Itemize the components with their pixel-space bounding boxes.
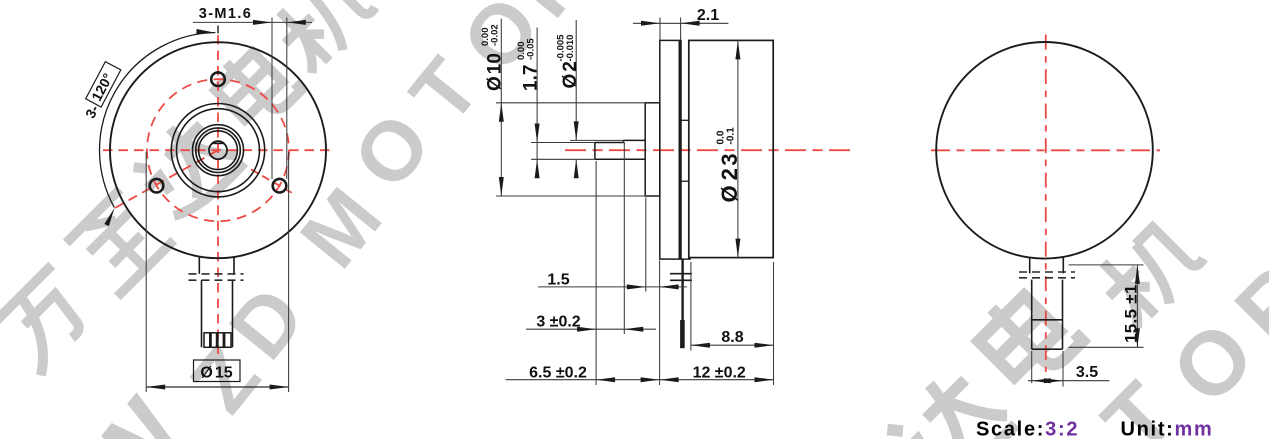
- plate bottom gap line: [681, 258, 691, 260]
- shaft step: [623, 140, 625, 142]
- red centerline vertical: [217, 35, 219, 354]
- svg-text:3.5: 3.5: [1076, 364, 1098, 381]
- ext line 1.7 bottom: [531, 158, 595, 160]
- ext line body back lower: [773, 262, 775, 385]
- shaft end cap: [594, 143, 596, 160]
- hidden dashed line 2: [189, 279, 244, 281]
- motor body rectangle: [689, 40, 773, 257]
- svg-text:15.5 ±1: 15.5 ±1: [1122, 284, 1141, 343]
- arrow 1.7 bottom: [535, 159, 540, 178]
- svg-text:6.5 ±0.2: 6.5 ±0.2: [529, 364, 587, 381]
- arrow 3 left: [577, 327, 596, 332]
- ext line dia2 top: [570, 139, 624, 141]
- bearing circle 1: [193, 125, 244, 176]
- screw tick lower: [681, 180, 689, 182]
- shaft stub left line: [198, 257, 200, 274]
- hidden dashed line 1: [189, 273, 244, 275]
- bearing circle 2: [196, 128, 241, 173]
- red radial centerline to lower-right hole: [251, 169, 294, 194]
- shaft bottom line: [1032, 348, 1063, 350]
- dim line 1.7: [536, 28, 538, 173]
- svg-text:-0.1: -0.1: [725, 127, 736, 145]
- ext line hub bottom: [496, 195, 645, 197]
- arrow 15.5 bottom: [1135, 328, 1140, 347]
- mounting hole top: [211, 72, 225, 86]
- knurl box: [204, 333, 231, 348]
- arrow dia23 top: [735, 40, 740, 59]
- dim line 6.5: [506, 379, 660, 381]
- svg-text:1.7: 1.7: [521, 65, 542, 91]
- red centerline vertical: [1045, 35, 1047, 372]
- hidden dashed line 1: [1019, 271, 1075, 273]
- dim line dia10: [500, 19, 502, 196]
- arrow 3.5 right: [1044, 378, 1063, 383]
- ext line shaft tip: [595, 161, 597, 385]
- shaft left line: [201, 280, 203, 347]
- screw tick upper: [681, 119, 689, 121]
- dia15 label box: [194, 360, 241, 382]
- outer circle body: [110, 42, 326, 258]
- ext line hub face: [645, 198, 647, 292]
- svg-text:-0.02: -0.02: [490, 24, 501, 46]
- arc arrow bottom: [104, 207, 117, 226]
- ext line 15.5 top: [1069, 264, 1144, 266]
- svg-text:3 ±0.2: 3 ±0.2: [536, 313, 580, 330]
- arrow 1.7 top: [535, 124, 540, 143]
- shaft flat chord: [212, 142, 225, 144]
- red centerline horizontal: [565, 149, 856, 151]
- wm char ji left: [265, 0, 381, 77]
- wm char dian right: [969, 279, 1083, 393]
- ext line plate face lower: [659, 261, 661, 386]
- arrow 15.5 top: [1135, 265, 1140, 284]
- mounting hole lower-left: [150, 179, 164, 193]
- extension line dia15 right: [288, 152, 290, 392]
- arrow dia15 left: [146, 385, 165, 390]
- wm char da left: [128, 108, 245, 225]
- front plate thick right edge: [679, 40, 682, 259]
- wm char zhi left: [65, 188, 174, 297]
- bearing circle 3: [199, 131, 238, 170]
- arc arrow top: [196, 29, 215, 35]
- svg-text:-0.010: -0.010: [565, 35, 576, 62]
- svg-text:-0.05: -0.05: [526, 38, 537, 60]
- dimension line dia15: [146, 386, 288, 388]
- wm char da right: [881, 361, 1016, 439]
- ext line 2.1 right: [680, 18, 682, 40]
- arrow dia23 bottom: [735, 239, 740, 258]
- svg-text:Ø15: Ø15: [200, 365, 232, 382]
- ext line body face lower: [690, 262, 692, 351]
- shaft stub right line: [233, 257, 235, 274]
- svg-text:Ø23: Ø23: [717, 151, 742, 203]
- svg-text:2.1: 2.1: [697, 7, 719, 24]
- shaft stub right: [1062, 258, 1064, 274]
- label 1.7 rotated: [516, 38, 542, 91]
- svg-text:1.5: 1.5: [547, 272, 569, 289]
- arrow 8.8 left: [691, 343, 710, 348]
- arrow 1.5 right: [660, 284, 679, 289]
- flange circle inner: [177, 109, 260, 192]
- flange circle outer: [171, 104, 264, 197]
- arrow 6.5 left: [596, 377, 615, 382]
- 120 degree arc dimension: [100, 33, 216, 208]
- ext line hub top: [496, 102, 645, 104]
- ext line 2.1 left: [659, 18, 661, 40]
- red centerline horizontal: [103, 149, 333, 151]
- dim line dia2: [575, 20, 577, 140]
- black tick above top hole: [217, 26, 219, 34]
- lead wire upper: [681, 260, 683, 321]
- svg-text:Unit:mm: Unit:mm: [1121, 419, 1214, 439]
- arrow 12 right: [755, 377, 774, 382]
- arrow 2.1 right: [681, 21, 700, 26]
- shaft stub left: [1029, 258, 1031, 274]
- dim line 1.5: [538, 286, 687, 288]
- arrow dia10 top: [499, 103, 504, 122]
- ext line 3.5 right: [1062, 351, 1064, 387]
- arrow dia2 bottom: [574, 159, 579, 178]
- svg-text:3-M1.6: 3-M1.6: [199, 6, 253, 22]
- hub rectangle: [645, 103, 660, 196]
- wm char wan left: [0, 265, 101, 375]
- knurl bar 2: [216, 333, 219, 348]
- extension line dia15 left: [145, 152, 147, 392]
- dim line dia2 lower seg: [575, 159, 577, 171]
- lead wire end: [680, 320, 685, 348]
- arrow dia10 bottom: [499, 177, 504, 196]
- hidden dashed line 2: [1019, 277, 1075, 279]
- arrow dia15 right: [270, 385, 289, 390]
- dim line 3: [526, 328, 656, 330]
- wm char dian left: [207, 39, 301, 133]
- knurl bar 1: [209, 333, 212, 348]
- arrow right of hole dim: [287, 20, 306, 25]
- wm char ji right: [1088, 210, 1210, 332]
- svg-text:Ø10: Ø10: [485, 53, 506, 91]
- dim line dia23: [737, 40, 739, 257]
- wire break mark 2: [670, 279, 692, 281]
- wire break mark 1: [670, 273, 692, 275]
- arrow 8.8 right: [755, 343, 774, 348]
- arrow 12 left: [660, 377, 679, 382]
- arrow 1.5 left: [627, 284, 646, 289]
- svg-text:8.8: 8.8: [721, 329, 743, 346]
- front plate rectangle: [660, 40, 681, 259]
- dim line 12: [660, 379, 774, 381]
- red bolt circle: [147, 79, 289, 221]
- ext line 1.7 top: [531, 142, 595, 144]
- label 3-120 rotated: [79, 62, 123, 121]
- ext line 15.5 bottom: [1069, 346, 1144, 348]
- dim line 3.5: [1028, 380, 1109, 382]
- shaft right line: [1062, 280, 1064, 350]
- arrow 3.5 left: [1032, 378, 1051, 383]
- back circle body: [936, 42, 1153, 259]
- shaft right line: [232, 280, 234, 347]
- dimension line 3-M1.6: [193, 21, 312, 23]
- arrow dia2 top: [574, 121, 579, 140]
- shaft flat top line: [595, 142, 624, 144]
- extension line hole right edge: [286, 18, 288, 180]
- label dia10 rotated: [480, 24, 506, 91]
- label dia23 rotated: [715, 127, 742, 203]
- svg-text:Scale:3:2: Scale:3:2: [976, 419, 1079, 439]
- ext line 3.5 left: [1031, 351, 1033, 383]
- shaft bottom line: [595, 158, 645, 160]
- dim line 2.1: [633, 22, 728, 24]
- label dia2 rotated: [555, 34, 581, 89]
- arrow left of hole dim: [253, 20, 272, 25]
- red centerline horizontal: [931, 149, 1160, 151]
- shaft left line: [1031, 280, 1033, 350]
- arrow 2.1 left: [641, 21, 660, 26]
- mounting hole lower-right: [273, 179, 287, 193]
- ext line shaft step: [623, 142, 625, 334]
- dim line 15.5: [1136, 265, 1138, 347]
- svg-text:12 ±0.2: 12 ±0.2: [693, 364, 746, 381]
- shaft full top line: [624, 139, 646, 141]
- arrow 3 right: [624, 327, 643, 332]
- dim line 8.8: [691, 344, 774, 346]
- knurl boundary line: [1032, 319, 1063, 321]
- svg-text:Ø2: Ø2: [560, 61, 581, 88]
- knurl bar 3: [223, 333, 226, 348]
- extension line hole left edge: [271, 18, 273, 179]
- red radial centerline to lower-left hole: [114, 150, 219, 209]
- shaft hole circle: [209, 141, 227, 159]
- arrow 6.5 right: [641, 377, 660, 382]
